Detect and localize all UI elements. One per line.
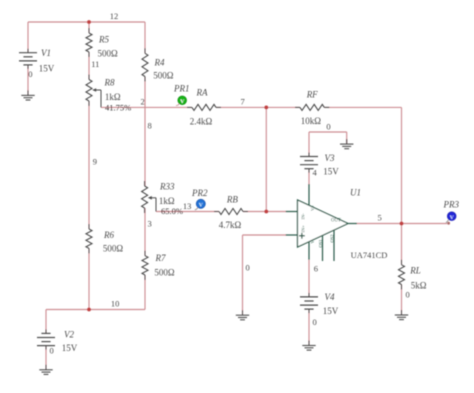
wire middle rail segments	[144, 22, 146, 53]
svg-text:V+: V+	[310, 205, 315, 211]
svg-text:IN+: IN+	[300, 225, 305, 233]
svg-text:11: 11	[91, 59, 99, 69]
resistor R4	[144, 48, 146, 53]
battery V4	[300, 296, 318, 298]
svg-text:500Ω: 500Ω	[153, 71, 174, 81]
ground below V4	[308, 341, 310, 346]
wire V1 top lead	[27, 22, 29, 53]
svg-text:4.7kΩ: 4.7kΩ	[219, 220, 242, 230]
wire V2 to ground	[45, 346, 47, 370]
wire net 12 top rail	[28, 21, 145, 23]
svg-text:0: 0	[50, 346, 54, 356]
wire net 7 vertical drop	[265, 107, 267, 211]
svg-text:0: 0	[313, 317, 317, 327]
junction net 7 at IN-	[264, 210, 268, 214]
svg-text:10: 10	[111, 299, 120, 309]
wire output net 5	[357, 223, 447, 225]
wire V4 to ground	[308, 309, 310, 346]
svg-text:OS2: OS2	[329, 234, 334, 242]
wire left rail net 11/9 segments	[88, 22, 90, 33]
op-amp U1	[286, 184, 357, 261]
resistor RA	[187, 106, 192, 108]
svg-text:7: 7	[241, 97, 245, 107]
svg-text:RA: RA	[196, 88, 208, 98]
ground right of V3	[346, 139, 348, 144]
wire IN+ net	[243, 234, 287, 236]
wire V1 to ground	[27, 65, 29, 96]
junction net 7 top	[264, 106, 268, 110]
battery V1	[19, 52, 37, 54]
svg-text:2: 2	[141, 97, 145, 107]
svg-text:V4: V4	[325, 292, 335, 302]
probe PR2	[195, 207, 198, 210]
svg-text:PR3: PR3	[443, 200, 460, 210]
wire bottom rail net 10	[46, 309, 145, 311]
probe PR1	[176, 103, 180, 106]
svg-text:R7: R7	[155, 253, 166, 263]
svg-text:UA741CD: UA741CD	[351, 250, 388, 260]
junction net 12	[87, 20, 91, 24]
svg-text:U1: U1	[350, 188, 361, 198]
svg-text:6: 6	[314, 264, 318, 274]
svg-text:65.0%: 65.0%	[161, 206, 183, 216]
resistor RB	[214, 211, 219, 213]
ground below V1	[27, 90, 29, 95]
resistor R5	[88, 28, 90, 33]
svg-text:13: 13	[183, 201, 192, 211]
svg-text:10kΩ: 10kΩ	[301, 116, 322, 126]
svg-text:V: V	[199, 203, 203, 209]
wire net 13 horizontal	[156, 211, 219, 213]
wire RF right to output	[324, 106, 401, 108]
wire RL leads	[401, 224, 403, 265]
svg-text:500Ω: 500Ω	[98, 49, 119, 59]
svg-text:9: 9	[93, 157, 97, 167]
junction net 5	[400, 222, 404, 226]
ground below V2	[45, 365, 47, 370]
resistor R7	[144, 251, 146, 256]
svg-text:1kΩ: 1kΩ	[159, 196, 175, 206]
wire V2 top lead	[45, 310, 47, 334]
svg-text:5: 5	[378, 213, 382, 223]
resistor RF	[295, 106, 300, 108]
svg-text:500Ω: 500Ω	[154, 268, 175, 278]
svg-text:0: 0	[28, 69, 32, 79]
svg-text:PR2: PR2	[191, 188, 208, 198]
svg-text:R5: R5	[98, 35, 109, 45]
wire net 7 RA to RF	[216, 106, 300, 108]
wire RB to op-amp IN-	[243, 211, 286, 213]
svg-text:V-: V-	[310, 239, 315, 244]
svg-text:V2: V2	[64, 330, 74, 340]
wire V3 bottom to op-amp V+	[308, 169, 310, 184]
svg-text:R6: R6	[103, 230, 114, 240]
svg-text:OS1: OS1	[318, 239, 323, 247]
svg-text:V: V	[180, 99, 184, 105]
ground IN+ net	[242, 310, 244, 315]
wire V3 top to ground	[308, 132, 310, 157]
svg-text:R4: R4	[154, 58, 165, 68]
resistor RL	[401, 260, 403, 265]
svg-text:V: V	[450, 215, 454, 221]
svg-text:OUT: OUT	[331, 218, 341, 223]
svg-text:15V: 15V	[323, 306, 339, 316]
svg-text:RB: RB	[226, 195, 238, 205]
svg-text:0: 0	[406, 290, 410, 300]
svg-text:RF: RF	[306, 90, 318, 100]
wire op-amp V- to V4	[308, 260, 310, 297]
svg-text:15V: 15V	[323, 167, 339, 177]
svg-text:500Ω: 500Ω	[103, 244, 124, 254]
junction net 10	[87, 308, 91, 312]
svg-text:3: 3	[148, 219, 152, 229]
battery V3	[300, 156, 318, 158]
svg-text:RL: RL	[409, 266, 421, 276]
svg-text:0: 0	[246, 263, 250, 273]
potentiometer R8	[88, 75, 90, 80]
svg-text:12: 12	[110, 11, 119, 21]
ground below RL	[401, 310, 403, 315]
svg-text:15V: 15V	[62, 343, 78, 353]
wire net 2 horizontal	[101, 106, 192, 108]
svg-text:15V: 15V	[39, 64, 55, 74]
svg-text:V1: V1	[41, 48, 51, 58]
svg-text:1kΩ: 1kΩ	[105, 92, 121, 102]
op-amp plus sign	[299, 233, 305, 239]
svg-text:R8: R8	[104, 78, 115, 88]
svg-text:V3: V3	[325, 153, 335, 163]
svg-text:PR1: PR1	[173, 84, 190, 94]
svg-text:IN-: IN-	[300, 213, 305, 220]
probe PR3	[447, 222, 450, 225]
svg-text:R33: R33	[159, 182, 175, 192]
battery V2	[41, 332, 50, 334]
svg-text:5kΩ: 5kΩ	[411, 281, 427, 291]
potentiometer R33	[144, 181, 146, 186]
resistor R6	[88, 224, 90, 229]
svg-text:41.75%: 41.75%	[105, 103, 131, 113]
svg-text:0: 0	[326, 122, 330, 132]
svg-text:2.4kΩ: 2.4kΩ	[190, 117, 213, 127]
svg-text:8: 8	[148, 121, 152, 131]
